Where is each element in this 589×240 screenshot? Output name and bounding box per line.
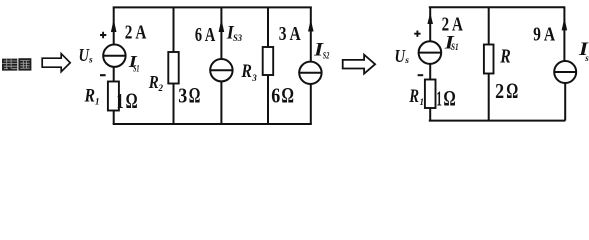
svg-text:2 A: 2 A: [125, 23, 147, 44]
current source Is chord: [554, 71, 576, 73]
current arrow 2A: [111, 19, 117, 32]
wire c2 branch2 lower: [488, 74, 490, 121]
wire: top rail: [113, 6, 312, 8]
svg-text:2: 2: [495, 79, 504, 103]
svg-text:2: 2: [158, 83, 164, 93]
minus sign of Us (c2): [418, 74, 424, 76]
resistor R2 box: [168, 52, 178, 84]
svg-text:1: 1: [420, 97, 425, 107]
wire branch1 upper: [113, 7, 115, 44]
wire c2 branch3 lower: [564, 83, 566, 121]
wire c2 branch2 upper: [488, 7, 490, 44]
current source Is3 chord: [210, 69, 232, 71]
wire branch1 lower: [113, 111, 115, 125]
current source Is3 (circle): [210, 59, 232, 81]
current arrow 9A: [562, 18, 568, 31]
svg-text:1: 1: [117, 89, 124, 113]
current source Is (circle): [554, 61, 576, 83]
wire c2 branch1 mid: [429, 64, 431, 80]
current source Is1 c2 chord: [419, 52, 442, 54]
svg-text:3: 3: [178, 83, 187, 107]
wire c2 branch1 upper: [429, 7, 431, 41]
wire branch3 upper: [220, 7, 222, 59]
hollow arrow 2: [343, 55, 375, 74]
current source Is1 (circle): [103, 45, 125, 67]
svg-text:3 A: 3 A: [279, 24, 301, 45]
svg-text:6 A: 6 A: [195, 25, 215, 46]
current arrow 3A: [308, 20, 314, 32]
minus sign of Us: [100, 74, 106, 76]
wire branch5 lower: [310, 84, 312, 124]
svg-text:3: 3: [251, 73, 257, 83]
svg-text:s: s: [404, 56, 409, 66]
svg-text:9 A: 9 A: [533, 24, 555, 45]
resistor R1 box: [108, 82, 119, 111]
wire branch5 upper: [310, 7, 312, 61]
resistor R3 box: [263, 47, 274, 75]
plus sign of Us (c2): [414, 31, 420, 37]
svg-text:S1: S1: [451, 42, 459, 52]
wire branch2 lower: [173, 84, 175, 125]
svg-text:Ω: Ω: [126, 88, 138, 113]
svg-text:Ω: Ω: [506, 78, 518, 103]
svg-text:s: s: [584, 53, 589, 63]
svg-text:R: R: [148, 72, 159, 92]
svg-text:R: R: [241, 61, 252, 82]
current source Is2 chord: [299, 72, 321, 74]
current source Is2 (circle): [299, 62, 321, 84]
wire branch3 lower: [220, 81, 222, 124]
svg-text:S3: S3: [233, 33, 242, 43]
svg-text:U: U: [395, 46, 406, 66]
svg-text:Ω: Ω: [443, 85, 455, 110]
svg-text:1: 1: [436, 86, 442, 110]
svg-text:S2: S2: [323, 50, 330, 60]
svg-text:R: R: [84, 86, 95, 107]
svg-text:R: R: [409, 86, 420, 107]
label 题图 (problem-figure caption): [2, 58, 31, 70]
resistor R1 box (c2): [425, 80, 436, 109]
svg-text:6: 6: [271, 83, 280, 107]
current arrow 6A: [219, 19, 225, 32]
resistor R box (c2): [484, 45, 494, 74]
svg-text:s: s: [88, 56, 93, 66]
plus sign of Us: [100, 32, 106, 38]
wire branch2 upper: [173, 7, 175, 52]
wire branch4 upper: [267, 7, 269, 47]
wire: top rail 2: [429, 6, 566, 8]
wire: bottom rail: [113, 123, 312, 125]
wire: bottom rail 2: [429, 120, 566, 122]
svg-text:R: R: [500, 46, 511, 68]
current source Is1 chord: [103, 55, 125, 57]
wire branch1 mid: [113, 67, 115, 82]
wire branch4 lower: [267, 75, 269, 124]
svg-text:Ω: Ω: [189, 82, 201, 107]
wire c2 branch1 lower: [429, 108, 431, 121]
svg-text:Ω: Ω: [281, 82, 294, 107]
current arrow 2A (c2): [427, 13, 433, 24]
hollow arrow 1: [42, 54, 70, 72]
svg-text:1: 1: [95, 97, 100, 107]
svg-text:S1: S1: [133, 64, 140, 74]
current source Is1 c2 (circle): [419, 41, 442, 64]
wire c2 branch3 upper: [563, 7, 565, 61]
